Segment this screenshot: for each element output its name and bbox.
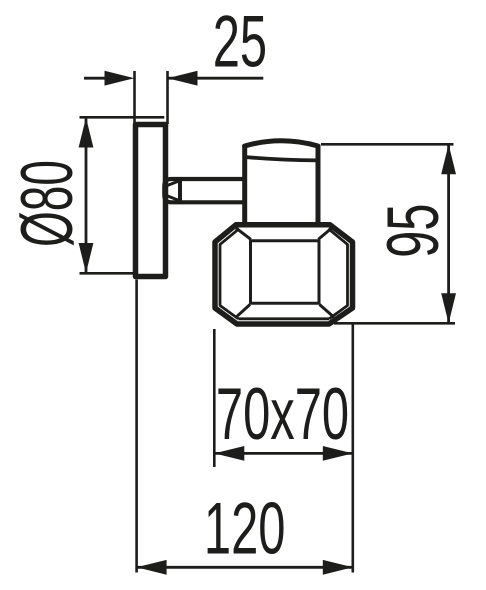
- dimension Ø80 arrow up: [79, 118, 94, 148]
- mounting arm cap chamfer top: [167, 181, 179, 186]
- mounting arm cap divider: [178, 180, 182, 201]
- dimension 120 arrow right: [323, 560, 353, 575]
- dimension 95 line: [447, 144, 450, 323]
- dimension 120 extension line left: [135, 280, 138, 573]
- dimension 70x70 line: [214, 452, 352, 455]
- dimension 95 extension line top: [321, 143, 454, 146]
- head bevel diagonal top-right: [318, 227, 333, 239]
- head inner bottom line: [238, 317, 329, 320]
- dimension Ø80 line: [85, 118, 88, 274]
- dimension Ø80 arrow down: [79, 243, 94, 273]
- dimension 25 extension line left: [133, 71, 136, 124]
- dimension Ø80 text (rotated): [6, 160, 87, 247]
- head outer octagon: [215, 225, 353, 324]
- dimension 95 extension line bottom: [334, 322, 455, 325]
- head bevel diagonal top-left: [236, 228, 251, 239]
- dimension 95 text (rotated): [374, 203, 455, 257]
- neck cylinder cap band arc: [246, 157, 317, 160]
- neck cylinder left edge: [242, 145, 247, 224]
- neck cylinder top arc: [245, 141, 318, 146]
- head inner side line left: [220, 229, 239, 319]
- dimension 120 line: [137, 566, 353, 569]
- head inner side line right: [328, 229, 347, 319]
- svg-text:70x70: 70x70: [216, 374, 349, 455]
- head front face rectangle: [251, 241, 320, 303]
- dimension 120 arrow left: [137, 560, 167, 575]
- dimension 25 text: [213, 2, 267, 83]
- svg-text:Ø80: Ø80: [6, 160, 87, 247]
- dimension 70x70 text: [216, 374, 349, 455]
- svg-text:95: 95: [374, 203, 455, 257]
- dimension 95 arrow up: [441, 144, 456, 174]
- dimension 120 text: [204, 489, 286, 570]
- dimension 25 arrow left (pointing right): [105, 71, 135, 86]
- head bevel diagonal bottom-right: [320, 305, 335, 318]
- head bevel diagonal bottom-left: [236, 305, 250, 318]
- dimension Ø80 extension line top: [80, 116, 165, 119]
- svg-text:25: 25: [213, 2, 267, 83]
- dimension 25 line left segment: [84, 77, 110, 80]
- dimension 70x70 arrow right: [323, 446, 353, 461]
- dimension 25 arrow right (pointing left): [168, 71, 198, 86]
- svg-text:120: 120: [204, 489, 286, 570]
- neck cylinder right edge: [316, 145, 321, 224]
- dimension 25 extension line right: [166, 71, 169, 124]
- dimension 70x70 extension line left: [213, 329, 216, 467]
- dimension 70x70 arrow left: [214, 446, 244, 461]
- wall plate: [136, 125, 166, 277]
- mounting arm cap chamfer bottom: [167, 196, 179, 201]
- dimension Ø80 extension line bottom: [80, 272, 165, 275]
- mounting arm outline: [164, 179, 244, 202]
- dimension 70x70 extension line right (shared with 120): [351, 324, 354, 573]
- dimension 95 arrow down: [441, 293, 456, 323]
- dimension 25 line right segment: [168, 77, 264, 80]
